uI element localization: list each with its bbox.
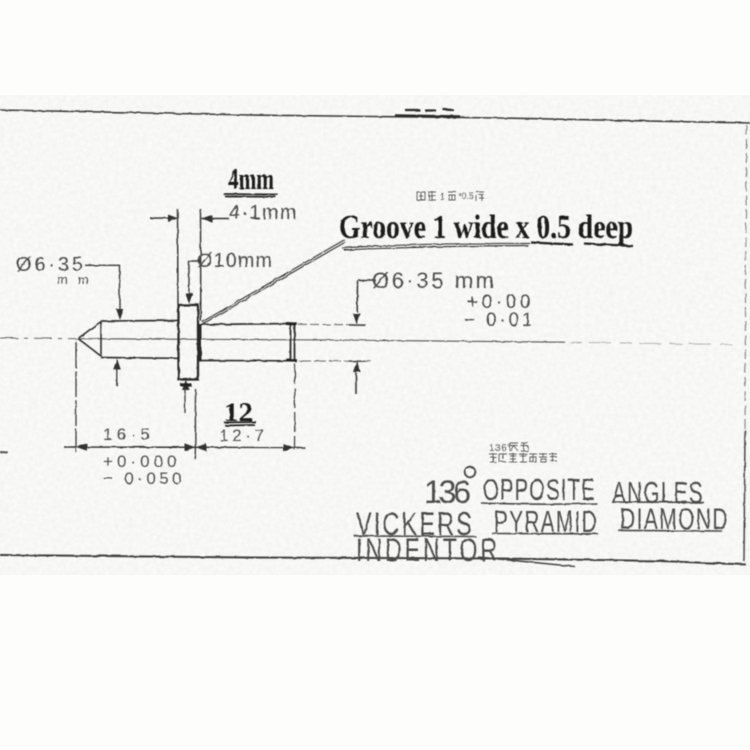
degree circle of 136: [465, 467, 476, 478]
right dia6.35 up arrow: [353, 361, 361, 372]
4mm dimension right arrow: [202, 218, 230, 220]
svg-text:16·5: 16·5: [103, 425, 152, 444]
arrow right at barrel end extension: [283, 444, 294, 452]
bottom border line of sheet: [0, 555, 746, 565]
svg-text:INDENTOR: INDENTOR: [356, 532, 500, 568]
tick bar at right dia6.35 bottom arrow tip: [349, 360, 365, 362]
dia10 leader: [189, 262, 201, 298]
chinese note: groove 1 wide 0.5 deep: [417, 191, 484, 203]
left dia6.35 bottom arrow: [113, 359, 121, 370]
svg-text:*0.5: *0.5: [458, 191, 474, 201]
extension below flange: [194, 389, 196, 459]
left dia6.35 leader: [85, 265, 120, 310]
svg-text:12·7: 12·7: [219, 426, 266, 445]
extension below barrel end: [294, 364, 297, 450]
groove (dark band right of flange): [198, 324, 201, 362]
left dia6.35 top arrow: [116, 309, 124, 320]
right dia 6.35 dimension bracket tick: [359, 280, 377, 282]
swoosh underline under Groove text: [342, 243, 530, 250]
cone tip of indenter: [78, 322, 101, 357]
lower dimension line: [64, 446, 299, 449]
swoosh tail after INDENTOR: [478, 557, 575, 567]
tick bar at right dia6.35 top arrow tip: [349, 324, 365, 326]
centerline: [0, 337, 80, 340]
groove leader line pair: [202, 240, 346, 324]
extension below cone tip: [75, 342, 77, 452]
4mm dimension left arrow: [150, 217, 173, 219]
underline under deep: [584, 244, 633, 247]
underline DIAMOND: [618, 530, 722, 533]
top border line of sheet: [0, 110, 750, 123]
extension line above flange left: [177, 209, 180, 304]
svg-text:− 0·01: − 0·01: [464, 310, 534, 331]
underline under 0.5: [531, 243, 573, 245]
underline VICKERS: [354, 535, 476, 538]
left dia6.35 bottom extension: [116, 370, 118, 387]
flange disc: [179, 305, 199, 380]
underline of 4mm: [223, 194, 278, 197]
arrow left at cone extension: [76, 443, 87, 451]
right dia6.35 lower vertical: [355, 372, 357, 394]
svg-text:1: 1: [440, 192, 446, 203]
svg-text:136: 136: [424, 474, 474, 510]
svg-text:Ø6·35 mm: Ø6·35 mm: [372, 268, 496, 293]
small dash at left edge: [0, 451, 8, 454]
dia10 bottom extension: [184, 390, 186, 413]
right barrel body: [201, 324, 297, 361]
arrows at middle extension: [185, 443, 196, 451]
svg-text:Ø10mm: Ø10mm: [197, 250, 273, 272]
svg-text:Ø6·35: Ø6·35: [16, 254, 84, 276]
small tail right of dimension: [294, 446, 305, 448]
right dia6.35 down arrow: [353, 314, 361, 325]
extension line above flange right: [200, 209, 202, 321]
underline OPPOSITE: [481, 503, 597, 504]
svg-text:4·1mm: 4·1mm: [229, 202, 298, 224]
underline PYRAMID: [492, 533, 598, 535]
dia10 bottom arrow: [182, 380, 190, 390]
dia10 top arrow: [185, 293, 193, 304]
dash marks above top border: [405, 110, 454, 111]
right barrel end cap: [291, 323, 295, 362]
right border line of sheet: [745, 125, 747, 430]
centerline faint right tail: [570, 342, 735, 344]
svg-text:136°: 136°: [489, 443, 512, 454]
svg-text:4mm: 4mm: [228, 161, 274, 196]
dia10 bottom tick: [181, 383, 192, 386]
svg-text:Groove 1 wide x 0.5 deep: Groove 1 wide x 0.5 deep: [339, 209, 633, 246]
chinese note: 136 reverse angle: [489, 443, 528, 454]
right dia6.35 vertical: [356, 281, 358, 313]
bottom edge extension right of barrel: [299, 360, 372, 362]
underline ANGLES: [612, 501, 704, 504]
svg-text:OPPOSITE: OPPOSITE: [483, 472, 596, 507]
double underline of 12: [224, 422, 256, 426]
darker segment of top border: [395, 116, 460, 117]
top edge extension right of barrel: [298, 323, 366, 326]
chinese note: vickers diamond indenter: [489, 453, 557, 462]
end cap corner blobs: [286, 324, 297, 361]
left barrel body: [101, 321, 179, 359]
